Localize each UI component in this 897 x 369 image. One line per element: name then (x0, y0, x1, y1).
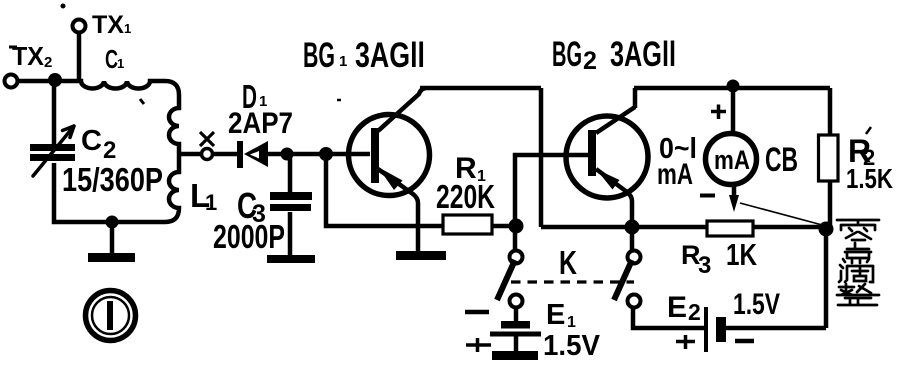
svg-text:220K: 220K (436, 178, 495, 215)
svg-text:CB: CB (765, 141, 798, 179)
svg-text:1K: 1K (726, 237, 757, 272)
svg-text:TX: TX (92, 11, 124, 39)
svg-text:3: 3 (698, 252, 711, 279)
svg-text:mA: mA (657, 158, 693, 191)
svg-text:1.5K: 1.5K (846, 163, 893, 194)
svg-text:1.5V: 1.5V (543, 330, 601, 362)
svg-text:E: E (546, 299, 565, 331)
svg-text:3AGll: 3AGll (355, 36, 425, 75)
svg-text:2AP7: 2AP7 (228, 107, 293, 140)
svg-text:1.5V: 1.5V (733, 288, 780, 321)
svg-text:BG: BG (303, 36, 335, 75)
svg-text:2: 2 (44, 54, 52, 71)
svg-text:2000P: 2000P (213, 218, 285, 255)
svg-text:2: 2 (688, 299, 701, 325)
svg-text:E: E (667, 291, 687, 324)
svg-text:2: 2 (583, 47, 597, 75)
svg-text:1: 1 (124, 21, 131, 36)
svg-text:15/360P: 15/360P (62, 161, 163, 198)
svg-text:mA: mA (714, 145, 750, 175)
svg-text:C: C (81, 125, 102, 157)
svg-text:1: 1 (567, 314, 576, 331)
svg-text:BG: BG (552, 35, 582, 74)
svg-text:1: 1 (205, 190, 217, 215)
svg-text:3AGll: 3AGll (610, 35, 676, 74)
svg-text:K: K (559, 244, 577, 281)
svg-text:1: 1 (339, 53, 347, 70)
svg-text:2: 2 (103, 137, 116, 164)
svg-text:1: 1 (117, 56, 124, 71)
